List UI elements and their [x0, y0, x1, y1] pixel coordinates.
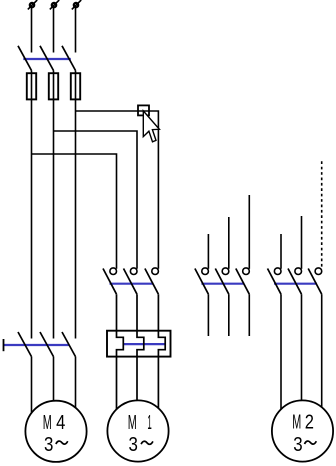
wire to contactor K2 pole 2 [228, 217, 230, 269]
svg-text:3: 3 [44, 434, 53, 456]
fuse F1b [49, 73, 58, 99]
wire M4 phase 2 to motor [53, 357, 55, 401]
wire L1 main vertical [31, 71, 33, 339]
dashed wire to contactor K3 pole 3 [321, 161, 323, 268]
mechanical link of Q4 (blue) [4, 344, 70, 346]
wire to contactor K2 pole 3 [248, 195, 250, 269]
disconnect switch Q0 pole 2 blade [40, 46, 54, 71]
contact Q4 pole 2 blade [40, 332, 54, 357]
wire M2 phase 1 to motor [280, 294, 282, 409]
wire to contactor K3 pole 2 [301, 216, 303, 269]
motor M4 [25, 401, 86, 462]
wire K1 phase 1 through overload to motor [117, 294, 124, 409]
contactor K2 pole 2 [215, 268, 229, 294]
contact Q4 pole 1 blade [18, 332, 32, 357]
wire M2 phase 2 to motor [301, 294, 303, 401]
wire to contactor K2 pole 1 [207, 234, 209, 269]
contactor K1 pole 2 [124, 268, 138, 294]
disconnect switch Q0 pole 3 blade [62, 46, 76, 71]
actuator bar of Q4 [3, 339, 5, 351]
fuse F1a [27, 73, 36, 99]
wire tap L1 to contactor K1 pole 1 [32, 154, 117, 269]
contactor K1 pole 1 [103, 268, 117, 294]
fuse F1c [71, 73, 80, 99]
wire L1 upper [31, 8, 33, 53]
svg-text:1: 1 [147, 412, 151, 434]
wire L2 upper [53, 8, 55, 53]
wire below K2 pole 2 [228, 294, 230, 336]
mechanical link of K2 (blue) [201, 283, 244, 285]
contact Q4 pole 3 blade [62, 332, 76, 357]
motor M2 [272, 400, 333, 461]
terminal T3 [72, 0, 81, 9]
wire tap L2 to contactor K1 pole 2 [54, 131, 138, 269]
motor M1 [107, 400, 168, 461]
svg-text:M: M [128, 412, 137, 434]
mechanical link of K3 (blue) [274, 283, 317, 285]
wire M2 phase 3 to motor [321, 294, 323, 407]
wire M4 phase 3 to motor [75, 357, 77, 408]
wire tap L3 to contactor K1 pole 3 [76, 111, 159, 269]
connection box on wire [138, 105, 149, 115]
svg-text:3: 3 [293, 434, 302, 456]
svg-text:2: 2 [305, 411, 314, 433]
terminal T2 [50, 0, 59, 9]
mouse cursor [143, 111, 159, 142]
contactor K3 pole 3 [308, 268, 322, 294]
wire K1 phase 2 through overload to motor [137, 294, 144, 401]
wire to contactor K3 pole 1 [280, 234, 282, 269]
contactor K1 pole 3 [145, 268, 159, 294]
wire L3 main vertical [75, 71, 77, 339]
mechanical link of K1 (blue) [110, 283, 154, 285]
contactor K2 pole 3 [236, 268, 250, 294]
mechanical link of Q0 (blue) [23, 58, 71, 60]
wire L3 upper [75, 8, 77, 53]
contactor K3 pole 1 [268, 268, 282, 294]
mechanical link inside overload relay (blue) [123, 343, 166, 345]
terminal T1 [28, 0, 37, 9]
svg-text:M: M [292, 411, 301, 433]
wire M4 phase 1 to motor [31, 357, 33, 413]
wire L2 main vertical [53, 71, 55, 339]
contactor K3 pole 2 [288, 268, 302, 294]
wire K1 phase 3 through overload to motor [158, 294, 165, 408]
wire below K2 pole 3 [248, 294, 250, 336]
wire below K2 pole 1 [207, 294, 209, 336]
thermal overload relay box [107, 331, 171, 357]
contactor K2 pole 1 [195, 268, 209, 294]
svg-text:3: 3 [129, 434, 138, 456]
svg-text:4: 4 [56, 412, 65, 434]
svg-text:M: M [43, 412, 52, 434]
disconnect switch Q0 pole 1 blade [18, 46, 32, 71]
